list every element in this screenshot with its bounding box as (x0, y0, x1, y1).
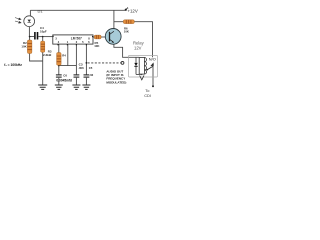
svg-text:LM 567: LM 567 (71, 36, 82, 40)
svg-text:C5: C5 (89, 66, 93, 70)
svg-text:2.2kΩ: 2.2kΩ (43, 53, 52, 57)
svg-text:10K: 10K (124, 30, 129, 34)
svg-text:R4: R4 (62, 53, 66, 57)
svg-text:10K: 10K (21, 45, 27, 49)
svg-text:10µF: 10µF (40, 30, 47, 34)
svg-text:.006: .006 (78, 66, 84, 70)
svg-text:C6: C6 (63, 73, 67, 77)
svg-text:0.0045mfd: 0.0045mfd (56, 79, 72, 83)
svg-text:10K: 10K (94, 44, 100, 48)
svg-text:MODULATED): MODULATED) (106, 80, 126, 84)
svg-text:D1: D1 (38, 9, 44, 14)
svg-text:.02: .02 (89, 73, 93, 77)
svg-text:+12V: +12V (127, 9, 137, 14)
svg-text:f₀ ≈ 100kHz: f₀ ≈ 100kHz (4, 63, 22, 67)
svg-text:N/O: N/O (149, 57, 156, 62)
svg-text:CDI: CDI (144, 93, 151, 98)
svg-text:12V: 12V (134, 46, 142, 51)
